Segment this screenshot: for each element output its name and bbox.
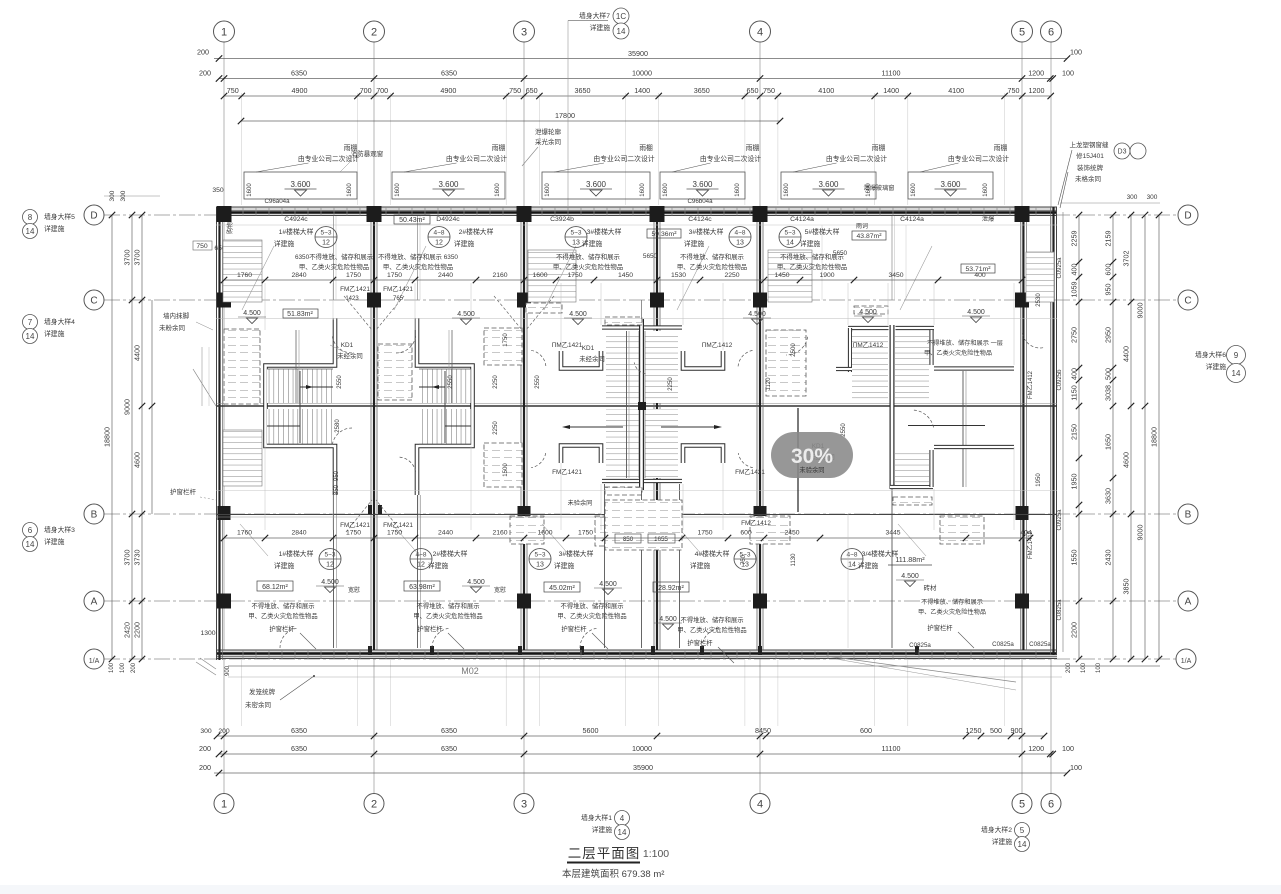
svg-text:2200: 2200 <box>1070 622 1079 638</box>
svg-text:4: 4 <box>620 814 625 823</box>
svg-text:3038: 3038 <box>1104 385 1113 401</box>
svg-text:1750: 1750 <box>578 530 593 537</box>
svg-text:1400: 1400 <box>883 86 899 95</box>
svg-text:详建施: 详建施 <box>992 837 1013 846</box>
svg-text:5650: 5650 <box>643 253 658 260</box>
svg-text:750: 750 <box>509 86 521 95</box>
svg-text:泄爆轮廓: 泄爆轮廓 <box>535 127 562 136</box>
svg-text:6: 6 <box>28 526 33 535</box>
svg-text:53.71m²: 53.71m² <box>966 266 992 273</box>
svg-text:甲、乙类火灾危险性物品: 甲、乙类火灾危险性物品 <box>413 611 482 620</box>
svg-text:雨棚: 雨棚 <box>639 143 653 152</box>
svg-text:墙内抹脚: 墙内抹脚 <box>163 311 190 320</box>
svg-text:5~3: 5~3 <box>570 230 581 237</box>
svg-text:1655: 1655 <box>654 536 668 543</box>
svg-text:2#楼梯大样: 2#楼梯大样 <box>459 227 494 236</box>
svg-text:2420: 2420 <box>123 622 132 638</box>
svg-text:950: 950 <box>334 470 340 481</box>
svg-text:不得堆放、储存和展示: 不得堆放、储存和展示 <box>252 601 315 610</box>
svg-text:3650: 3650 <box>575 86 591 95</box>
svg-text:护窗栏杆: 护窗栏杆 <box>561 624 587 633</box>
svg-text:111.88m²: 111.88m² <box>895 555 925 564</box>
svg-text:4100: 4100 <box>818 86 834 95</box>
svg-text:6: 6 <box>1048 799 1054 811</box>
svg-text:7: 7 <box>28 318 33 327</box>
svg-text:1760: 1760 <box>237 530 252 537</box>
svg-text:护窗栏杆: 护窗栏杆 <box>269 624 295 633</box>
svg-text:1600: 1600 <box>663 183 669 197</box>
svg-text:护窗栏杆: 护窗栏杆 <box>927 623 953 632</box>
svg-text:甲、乙类火灾危险性物品: 甲、乙类火灾危险性物品 <box>918 608 986 616</box>
svg-text:600: 600 <box>740 530 752 537</box>
svg-text:详建施: 详建施 <box>554 561 575 570</box>
svg-text:甲、乙类火灾危险性物品: 甲、乙类火灾危险性物品 <box>248 611 317 620</box>
svg-text:FM乙1421: FM乙1421 <box>383 285 413 293</box>
svg-text:购物: 购物 <box>226 222 234 234</box>
svg-text:1450: 1450 <box>618 272 633 279</box>
svg-text:3: 3 <box>521 799 527 811</box>
svg-text:4900: 4900 <box>440 86 456 95</box>
svg-text:4.500: 4.500 <box>243 310 261 317</box>
svg-text:详建施: 详建施 <box>1206 362 1227 371</box>
svg-text:FM乙1421: FM乙1421 <box>340 521 370 529</box>
svg-text:甲、乙类火灾危险性物品: 甲、乙类火灾危险性物品 <box>677 625 746 634</box>
svg-text:未粉余同: 未粉余同 <box>159 323 185 332</box>
svg-text:100: 100 <box>1062 69 1074 78</box>
svg-text:FM乙1412: FM乙1412 <box>1027 530 1034 559</box>
svg-text:1600: 1600 <box>911 183 917 197</box>
svg-text:3730: 3730 <box>133 550 142 566</box>
svg-text:1400: 1400 <box>634 86 650 95</box>
svg-text:28.92m²: 28.92m² <box>658 585 684 592</box>
svg-text:1: 1 <box>221 27 227 39</box>
svg-text:14: 14 <box>617 27 626 36</box>
svg-text:500: 500 <box>1104 368 1113 380</box>
svg-text:1600: 1600 <box>784 183 790 197</box>
svg-text:4.500: 4.500 <box>901 573 919 580</box>
svg-text:3.600: 3.600 <box>290 180 311 189</box>
svg-text:D: D <box>90 211 97 222</box>
svg-text:1:100: 1:100 <box>643 848 669 860</box>
svg-text:100: 100 <box>1070 48 1082 57</box>
svg-text:1#楼梯大样: 1#楼梯大样 <box>279 227 314 236</box>
svg-text:200: 200 <box>1066 662 1072 673</box>
svg-text:3445: 3445 <box>885 530 900 537</box>
svg-text:14: 14 <box>26 540 35 549</box>
svg-text:3.600: 3.600 <box>818 180 839 189</box>
svg-text:FM乙1421: FM乙1421 <box>340 285 370 293</box>
svg-text:3#楼梯大样: 3#楼梯大样 <box>559 549 594 558</box>
svg-text:本层建筑面积 679.38 m²: 本层建筑面积 679.38 m² <box>562 868 664 880</box>
svg-text:1059: 1059 <box>1070 282 1079 298</box>
svg-text:5650: 5650 <box>833 250 848 257</box>
svg-text:200: 200 <box>199 763 211 772</box>
svg-text:泄爆玻璃窗: 泄爆玻璃窗 <box>864 184 895 192</box>
svg-text:100: 100 <box>109 662 115 673</box>
svg-text:1750: 1750 <box>387 530 402 537</box>
svg-text:详建施: 详建施 <box>800 239 821 248</box>
svg-text:1423: 1423 <box>345 296 359 302</box>
svg-text:护窗栏杆: 护窗栏杆 <box>170 487 197 496</box>
svg-text:6350: 6350 <box>291 726 307 735</box>
svg-text:由专业公司二次设计: 由专业公司二次设计 <box>948 154 1009 163</box>
svg-text:1750: 1750 <box>387 272 402 279</box>
svg-text:FM乙1412: FM乙1412 <box>1027 370 1034 399</box>
svg-text:4900: 4900 <box>292 86 308 95</box>
svg-text:4.500: 4.500 <box>569 311 587 318</box>
svg-text:850: 850 <box>334 484 340 495</box>
svg-text:墙身大样5: 墙身大样5 <box>44 212 75 221</box>
svg-text:1530: 1530 <box>671 272 686 279</box>
svg-text:D3: D3 <box>1118 149 1127 156</box>
svg-text:采光余同: 采光余同 <box>535 137 561 146</box>
svg-text:FM乙1421: FM乙1421 <box>552 468 582 476</box>
svg-text:未格余同: 未格余同 <box>1075 174 1101 183</box>
svg-text:1300: 1300 <box>200 630 215 637</box>
svg-text:1600: 1600 <box>532 272 547 279</box>
svg-text:2250: 2250 <box>493 375 499 389</box>
svg-text:甲、乙类火灾危险性物品: 甲、乙类火灾危险性物品 <box>553 262 623 271</box>
svg-text:45.02m²: 45.02m² <box>549 585 575 592</box>
svg-text:FM乙1412: FM乙1412 <box>741 519 771 527</box>
svg-text:ПM乙1412: ПM乙1412 <box>853 341 884 349</box>
svg-text:59.36m²: 59.36m² <box>652 231 678 238</box>
svg-text:4100: 4100 <box>948 86 964 95</box>
svg-text:4.500: 4.500 <box>599 581 617 588</box>
svg-text:2430: 2430 <box>1104 550 1113 566</box>
svg-text:详建施: 详建施 <box>858 561 879 570</box>
svg-text:50.43m²: 50.43m² <box>399 217 425 224</box>
svg-text:2550: 2550 <box>535 375 541 389</box>
svg-text:100: 100 <box>120 662 126 673</box>
svg-text:3700: 3700 <box>123 250 132 266</box>
svg-text:4~8: 4~8 <box>415 552 426 559</box>
svg-text:6350: 6350 <box>441 69 457 78</box>
svg-text:墙身大样3: 墙身大样3 <box>44 525 75 534</box>
svg-text:2440: 2440 <box>438 530 453 537</box>
svg-text:宽慰: 宽慰 <box>494 586 506 594</box>
svg-text:68.12m²: 68.12m² <box>262 584 288 591</box>
svg-text:4400: 4400 <box>1122 346 1131 362</box>
svg-text:10000: 10000 <box>632 744 652 753</box>
svg-text:14: 14 <box>618 828 627 837</box>
svg-text:甲、乙类火灾危险性物品: 甲、乙类火灾危险性物品 <box>777 262 847 271</box>
svg-text:1900: 1900 <box>819 272 834 279</box>
svg-text:详建施: 详建施 <box>428 561 449 570</box>
svg-text:750: 750 <box>763 86 775 95</box>
svg-text:765: 765 <box>393 296 404 302</box>
svg-text:100: 100 <box>1070 763 1082 772</box>
svg-text:4#楼梯大样: 4#楼梯大样 <box>695 549 730 558</box>
svg-text:1120: 1120 <box>766 377 772 391</box>
svg-text:4.500: 4.500 <box>321 579 339 586</box>
svg-text:2#楼梯大样: 2#楼梯大样 <box>433 549 468 558</box>
svg-text:M02: M02 <box>461 666 479 676</box>
svg-text:不得堆放、储存和展示: 不得堆放、储存和展示 <box>556 252 621 261</box>
svg-text:未经余同: 未经余同 <box>337 351 363 360</box>
svg-text:FM乙1421: FM乙1421 <box>735 468 765 476</box>
svg-text:650: 650 <box>526 86 538 95</box>
svg-text:1550: 1550 <box>1070 550 1079 566</box>
svg-text:9000: 9000 <box>123 399 132 415</box>
svg-text:详建施: 详建施 <box>582 239 603 248</box>
svg-text:2550: 2550 <box>841 423 847 437</box>
svg-text:5: 5 <box>1020 826 1025 835</box>
svg-text:1950: 1950 <box>1036 473 1042 487</box>
svg-text:C96a04a: C96a04a <box>264 198 290 205</box>
svg-text:1130: 1130 <box>791 553 797 567</box>
svg-text:6350: 6350 <box>441 726 457 735</box>
svg-text:雨棚: 雨棚 <box>994 143 1008 152</box>
svg-text:C0925a: C0925a <box>1057 509 1063 531</box>
svg-text:200: 200 <box>197 48 209 57</box>
svg-text:详建施: 详建施 <box>44 224 65 233</box>
svg-text:墙身大样2: 墙身大样2 <box>981 825 1012 834</box>
svg-text:1600: 1600 <box>495 183 501 197</box>
svg-text:1600: 1600 <box>640 183 646 197</box>
svg-text:500: 500 <box>990 726 1002 735</box>
svg-text:6350: 6350 <box>441 744 457 753</box>
svg-text:消防暴观窗: 消防暴观窗 <box>351 149 384 158</box>
svg-text:1650: 1650 <box>1104 434 1113 450</box>
svg-text:1150: 1150 <box>1070 385 1079 400</box>
svg-text:详建施: 详建施 <box>684 239 705 248</box>
svg-text:750: 750 <box>1008 86 1020 95</box>
svg-text:100: 100 <box>1081 662 1087 673</box>
svg-text:未验余同: 未验余同 <box>568 499 593 507</box>
svg-text:2530: 2530 <box>1036 293 1042 307</box>
svg-text:墙身大样1: 墙身大样1 <box>581 813 612 822</box>
svg-text:200: 200 <box>131 662 137 673</box>
svg-text:5~3: 5~3 <box>320 230 331 237</box>
svg-text:2550: 2550 <box>337 375 343 389</box>
svg-text:300: 300 <box>1147 194 1158 201</box>
svg-text:详建施: 详建施 <box>592 825 613 834</box>
svg-text:5: 5 <box>1019 27 1025 39</box>
svg-text:12: 12 <box>435 240 443 247</box>
svg-text:12: 12 <box>326 562 334 569</box>
svg-text:甲、乙类火灾危险性物品: 甲、乙类火灾危险性物品 <box>677 262 747 271</box>
svg-text:未验余同: 未验余同 <box>799 465 824 474</box>
svg-text:由专业公司二次设计: 由专业公司二次设计 <box>700 154 761 163</box>
svg-text:A: A <box>1185 597 1192 608</box>
svg-text:KD1: KD1 <box>582 345 595 352</box>
svg-text:详建施: 详建施 <box>44 329 65 338</box>
svg-text:C4124a: C4124a <box>900 216 924 223</box>
svg-text:18800: 18800 <box>103 427 112 447</box>
svg-text:5~3: 5~3 <box>534 552 545 559</box>
svg-text:详建施: 详建施 <box>274 239 295 248</box>
svg-text:1750: 1750 <box>346 530 361 537</box>
svg-text:2160: 2160 <box>492 272 507 279</box>
svg-text:详建施: 详建施 <box>690 561 711 570</box>
svg-text:1600: 1600 <box>247 183 253 197</box>
svg-text:51.83m²: 51.83m² <box>287 311 313 318</box>
svg-text:雨棚: 雨棚 <box>872 143 886 152</box>
svg-text:雨棚: 雨棚 <box>746 143 760 152</box>
svg-text:1600: 1600 <box>735 183 741 197</box>
svg-text:12: 12 <box>417 562 425 569</box>
svg-text:1750: 1750 <box>346 272 361 279</box>
svg-text:9000: 9000 <box>1136 303 1145 319</box>
svg-text:1/A: 1/A <box>89 658 100 665</box>
svg-text:2580: 2580 <box>335 419 341 433</box>
svg-text:雨词: 雨词 <box>856 222 868 230</box>
svg-text:13: 13 <box>572 240 580 247</box>
svg-text:5600: 5600 <box>583 726 599 735</box>
svg-text:2250: 2250 <box>724 272 739 279</box>
svg-text:C4124c: C4124c <box>688 216 712 223</box>
svg-text:1450: 1450 <box>774 272 789 279</box>
svg-text:ПM乙1412: ПM乙1412 <box>702 341 733 349</box>
svg-text:未经余同: 未经余同 <box>579 354 605 363</box>
svg-text:1250: 1250 <box>966 726 982 735</box>
svg-text:发笼统牌: 发笼统牌 <box>249 687 276 696</box>
svg-text:1750: 1750 <box>697 530 712 537</box>
svg-text:4.500: 4.500 <box>748 311 766 318</box>
svg-text:14: 14 <box>1232 369 1241 378</box>
svg-text:9: 9 <box>1234 351 1239 360</box>
svg-text:护窗栏杆: 护窗栏杆 <box>687 638 713 647</box>
svg-text:11100: 11100 <box>882 744 901 753</box>
svg-text:ПM乙1421: ПM乙1421 <box>552 341 583 349</box>
svg-text:35900: 35900 <box>628 49 648 58</box>
svg-text:14: 14 <box>1018 840 1027 849</box>
svg-text:护窗栏杆: 护窗栏杆 <box>417 624 443 633</box>
svg-text:C0825a: C0825a <box>1029 641 1051 648</box>
svg-text:砖材: 砖材 <box>924 583 937 592</box>
svg-text:D4924c: D4924c <box>436 216 460 223</box>
svg-text:雨棚: 雨棚 <box>492 143 506 152</box>
svg-text:C96b04a: C96b04a <box>687 198 713 205</box>
svg-text:3.600: 3.600 <box>438 180 459 189</box>
svg-text:4.500: 4.500 <box>967 309 985 316</box>
svg-text:300: 300 <box>200 728 212 735</box>
svg-text:C: C <box>90 296 97 307</box>
svg-text:2200: 2200 <box>133 622 142 638</box>
svg-text:2160: 2160 <box>492 530 507 537</box>
svg-text:1: 1 <box>221 799 227 811</box>
svg-text:750: 750 <box>227 86 239 95</box>
svg-text:4.500: 4.500 <box>467 579 485 586</box>
svg-text:11100: 11100 <box>882 69 901 78</box>
svg-text:3.600: 3.600 <box>940 180 961 189</box>
svg-text:10000: 10000 <box>632 69 652 78</box>
svg-text:C0925b: C0925b <box>1057 369 1063 391</box>
svg-text:2950: 2950 <box>1104 327 1113 343</box>
svg-text:C0825a: C0825a <box>909 642 931 649</box>
svg-text:4~8: 4~8 <box>734 230 745 237</box>
svg-text:4~8: 4~8 <box>433 230 444 237</box>
svg-text:1600: 1600 <box>545 183 551 197</box>
svg-text:C3924b: C3924b <box>550 216 574 223</box>
svg-text:2440: 2440 <box>438 272 453 279</box>
svg-text:6350不得堆放、储存和展示: 6350不得堆放、储存和展示 <box>295 252 374 261</box>
svg-text:不得堆放、储存和展示 一层: 不得堆放、储存和展示 一层 <box>927 339 1003 347</box>
svg-text:不得堆放、储存和展示: 不得堆放、储存和展示 <box>681 615 744 624</box>
svg-text:200: 200 <box>199 744 211 753</box>
svg-text:1#楼梯大样: 1#楼梯大样 <box>279 549 314 558</box>
svg-text:900: 900 <box>225 665 231 676</box>
svg-text:3/4楼梯大样: 3/4楼梯大样 <box>862 549 899 558</box>
svg-text:甲、乙类火灾危险性物品: 甲、乙类火灾危险性物品 <box>557 611 626 620</box>
svg-text:详建施: 详建施 <box>274 561 295 570</box>
svg-text:6350: 6350 <box>291 69 307 78</box>
svg-text:4400: 4400 <box>133 345 142 361</box>
svg-text:2840: 2840 <box>291 272 306 279</box>
svg-text:1200: 1200 <box>1029 86 1045 95</box>
svg-text:甲、乙类火灾危险性物品: 甲、乙类火灾危险性物品 <box>924 349 992 357</box>
svg-text:3700: 3700 <box>123 550 132 566</box>
svg-text:8: 8 <box>28 213 33 222</box>
svg-text:850: 850 <box>623 536 634 543</box>
svg-text:墙身大样4: 墙身大样4 <box>44 317 75 326</box>
svg-text:3650: 3650 <box>694 86 710 95</box>
svg-text:900: 900 <box>1011 726 1023 735</box>
svg-text:1750: 1750 <box>503 333 509 347</box>
svg-text:1200: 1200 <box>1028 69 1044 78</box>
svg-text:不得堆放、储存和展示: 不得堆放、储存和展示 <box>417 601 480 610</box>
svg-text:4: 4 <box>757 799 763 811</box>
svg-text:B: B <box>91 510 98 521</box>
svg-text:100: 100 <box>1062 744 1074 753</box>
svg-text:3850: 3850 <box>1122 579 1131 595</box>
svg-text:750: 750 <box>196 243 208 250</box>
svg-text:3700: 3700 <box>133 250 142 266</box>
svg-text:12: 12 <box>322 240 330 247</box>
svg-text:1500: 1500 <box>503 463 509 477</box>
svg-text:14: 14 <box>26 227 35 236</box>
svg-text:1750: 1750 <box>567 272 582 279</box>
svg-text:8450: 8450 <box>755 726 771 735</box>
svg-text:二层平面图: 二层平面图 <box>568 846 641 861</box>
svg-text:950: 950 <box>1104 284 1113 296</box>
svg-text:3: 3 <box>521 27 527 39</box>
svg-text:C0825a: C0825a <box>992 641 1014 648</box>
svg-text:C4924c: C4924c <box>284 216 308 223</box>
svg-text:C4124a: C4124a <box>790 216 814 223</box>
svg-text:修15J401: 修15J401 <box>1076 151 1104 160</box>
svg-text:18800: 18800 <box>1150 427 1159 447</box>
svg-text:未密余同: 未密余同 <box>245 700 271 709</box>
svg-text:B: B <box>1185 510 1192 521</box>
svg-text:2150: 2150 <box>1070 424 1079 440</box>
svg-text:43.87m²: 43.87m² <box>857 233 883 240</box>
svg-text:不得堆放、储存和展示: 不得堆放、储存和展示 <box>921 598 983 606</box>
svg-text:2840: 2840 <box>291 530 306 537</box>
svg-text:C0925a: C0925a <box>1057 257 1063 279</box>
svg-text:1600: 1600 <box>537 530 552 537</box>
svg-text:4600: 4600 <box>1122 452 1131 468</box>
svg-text:3.600: 3.600 <box>692 180 713 189</box>
svg-text:1600: 1600 <box>395 183 401 197</box>
svg-text:600: 600 <box>1104 264 1113 276</box>
svg-text:甲、乙类火灾危险性物品: 甲、乙类火灾危险性物品 <box>383 262 453 271</box>
svg-text:3702: 3702 <box>1122 251 1131 267</box>
svg-text:2500: 2500 <box>791 343 797 357</box>
svg-text:C: C <box>1184 296 1191 307</box>
svg-text:5~3: 5~3 <box>324 552 335 559</box>
svg-text:墙身大样7: 墙身大样7 <box>579 11 610 20</box>
svg-text:350: 350 <box>212 187 224 194</box>
svg-text:2250: 2250 <box>668 377 674 391</box>
svg-text:4: 4 <box>757 27 763 39</box>
svg-text:宽慰: 宽慰 <box>348 586 360 594</box>
svg-text:3450: 3450 <box>888 272 903 279</box>
svg-text:13: 13 <box>536 562 544 569</box>
svg-text:墙身大样6: 墙身大样6 <box>1195 350 1226 359</box>
svg-text:4.500: 4.500 <box>457 311 475 318</box>
